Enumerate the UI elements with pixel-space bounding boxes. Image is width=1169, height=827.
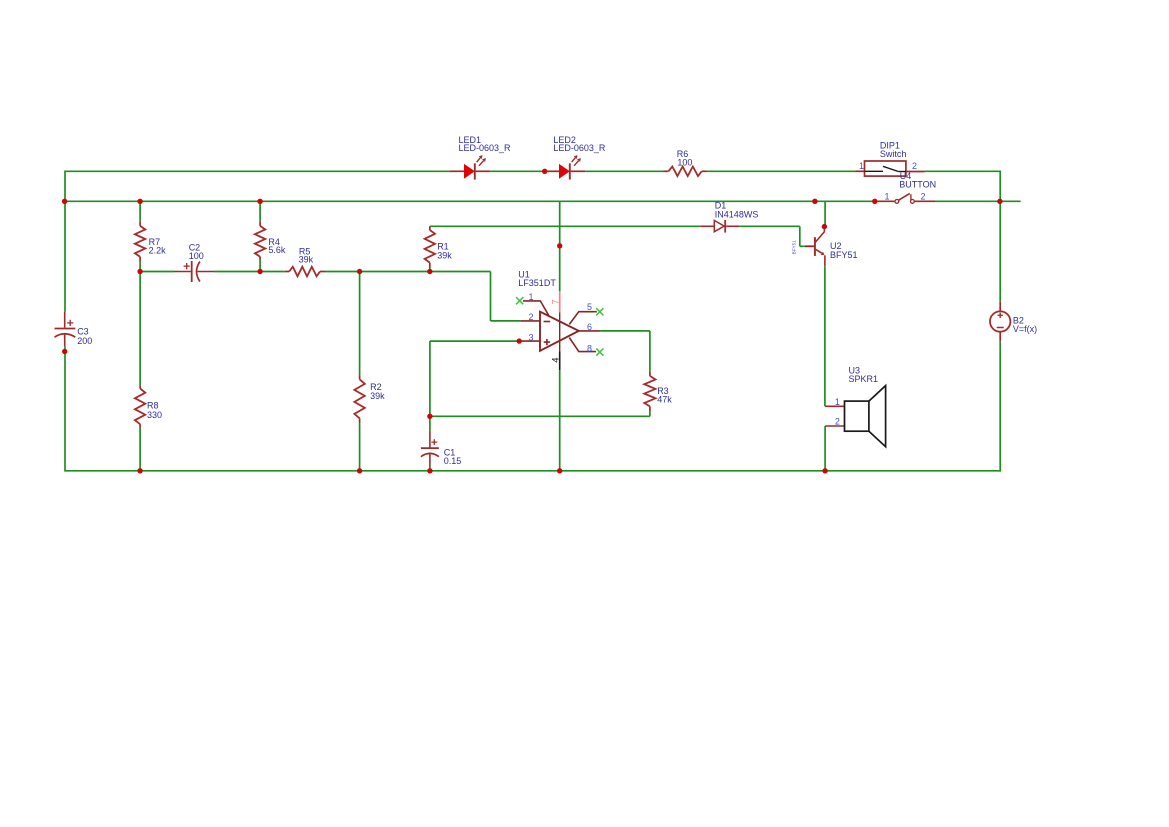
capacitor C2 <box>175 271 191 273</box>
svg-text:1: 1 <box>835 397 840 407</box>
svg-text:330: 330 <box>147 410 162 420</box>
junction dots second rail <box>62 199 67 204</box>
junction U2 collector <box>822 224 827 229</box>
switch DIP1 <box>855 170 864 172</box>
svg-text:1: 1 <box>859 161 864 171</box>
svg-text:1: 1 <box>884 191 889 201</box>
op-amp U1 pin 4 lead <box>559 352 561 371</box>
U1 pin 6 <box>579 330 600 332</box>
op-amp U1 <box>540 312 579 351</box>
svg-text:5: 5 <box>587 302 592 312</box>
svg-text:8: 8 <box>587 343 592 353</box>
capacitor C1 <box>429 431 431 448</box>
wire mid rail y=271.5 <box>140 271 174 273</box>
resistor R8 <box>139 386 141 389</box>
wire to op-amp pin2 <box>490 272 492 321</box>
wire R2 vertical x=359.6 <box>359 272 361 376</box>
svg-text:LF351DT: LF351DT <box>518 278 556 288</box>
LED1 <box>450 170 465 172</box>
source B2 <box>999 302 1001 312</box>
wire R7/R8 vertical x=140 <box>139 201 141 221</box>
LED2 <box>546 170 560 172</box>
wire feedback rail y=416.3 <box>430 415 650 417</box>
svg-text:LED-0603_R: LED-0603_R <box>553 143 606 153</box>
capacitor C3 <box>64 312 66 328</box>
diode D1 <box>700 225 714 227</box>
resistor R3 <box>649 371 651 376</box>
wire left vertical x=65 <box>64 171 66 312</box>
wire U2 emitter to speaker x=825 <box>824 266 826 406</box>
svg-text:4: 4 <box>551 357 562 362</box>
svg-text:2: 2 <box>528 312 533 322</box>
wire R1 bottom stub <box>429 268 431 272</box>
wire second rail y=201.3 <box>65 200 877 202</box>
svg-text:1: 1 <box>528 292 533 302</box>
svg-text:2: 2 <box>835 417 840 427</box>
pushbutton U4 <box>872 199 877 204</box>
op-amp U1 pin 7 lead <box>559 291 561 313</box>
wire op-amp output <box>600 330 650 332</box>
junction below C3 <box>62 349 67 354</box>
svg-text:BFY51: BFY51 <box>791 240 796 254</box>
U1 pin 5 <box>569 312 597 325</box>
junction dots mid rail <box>137 269 142 274</box>
svg-text:LED-0603_R: LED-0603_R <box>459 143 512 153</box>
op-amp U1 internal supply line <box>559 313 561 352</box>
resistor R4 <box>259 222 261 226</box>
svg-text:5.6k: 5.6k <box>268 245 286 255</box>
svg-text:BUTTON: BUTTON <box>899 180 936 190</box>
resistor R7 <box>139 222 141 226</box>
svg-text:39k: 39k <box>370 391 385 401</box>
svg-text:0.15: 0.15 <box>444 456 462 466</box>
resistor R5 <box>285 271 290 273</box>
svg-text:Switch: Switch <box>880 149 907 159</box>
resistor R1 <box>429 226 431 230</box>
svg-text:100: 100 <box>189 251 204 261</box>
wire R3 vertical x=649.9 <box>649 331 651 371</box>
svg-text:IN4148WS: IN4148WS <box>715 209 759 219</box>
wire speaker pin2 to bottom x=825 <box>824 426 826 471</box>
wire top rail y=171 <box>65 170 450 172</box>
wire U2 collector riser x=825 <box>824 201 826 226</box>
U1 pin 1 <box>523 301 549 316</box>
junction on supply riser <box>557 243 562 248</box>
transistor U2 <box>823 228 825 232</box>
svg-text:100: 100 <box>677 157 692 167</box>
junction between LEDs <box>542 169 547 174</box>
svg-text:47k: 47k <box>657 395 672 405</box>
svg-text:SPKR1: SPKR1 <box>849 374 879 384</box>
svg-text:39k: 39k <box>299 255 314 265</box>
svg-text:7: 7 <box>550 299 561 304</box>
svg-text:2: 2 <box>912 161 917 171</box>
wire D1 rail y=226.3 <box>430 225 700 227</box>
wire right vertical x=1000 <box>999 171 1001 302</box>
wire to U2 base <box>799 226 801 246</box>
wire op-amp pin3 horizontal y=341.1 <box>430 340 519 342</box>
U1 pin 2 <box>521 320 540 322</box>
wire bottom rail y=470.8 <box>65 470 1000 472</box>
svg-text:2.2k: 2.2k <box>149 246 167 256</box>
svg-text:2: 2 <box>920 191 925 201</box>
junction dots bottom rail <box>137 468 142 473</box>
speaker U3 <box>825 405 844 407</box>
wire op-amp supply vertical x=559.7 <box>559 201 561 291</box>
resistor R6 <box>664 170 669 172</box>
svg-text:200: 200 <box>77 336 92 346</box>
svg-text:BFY51: BFY51 <box>830 250 858 260</box>
resistor R2 <box>359 376 361 380</box>
svg-text:3: 3 <box>528 332 533 342</box>
wire R4 vertical x=260 <box>259 201 261 221</box>
junction feedback rail <box>427 414 432 419</box>
svg-text:V=f(x): V=f(x) <box>1013 324 1037 334</box>
U1 pin 8 <box>569 338 596 352</box>
wire C1 vertical x=429.9 <box>429 341 431 431</box>
U1 pin 3 <box>517 338 522 343</box>
svg-text:6: 6 <box>587 322 592 332</box>
svg-text:39k: 39k <box>437 250 452 260</box>
